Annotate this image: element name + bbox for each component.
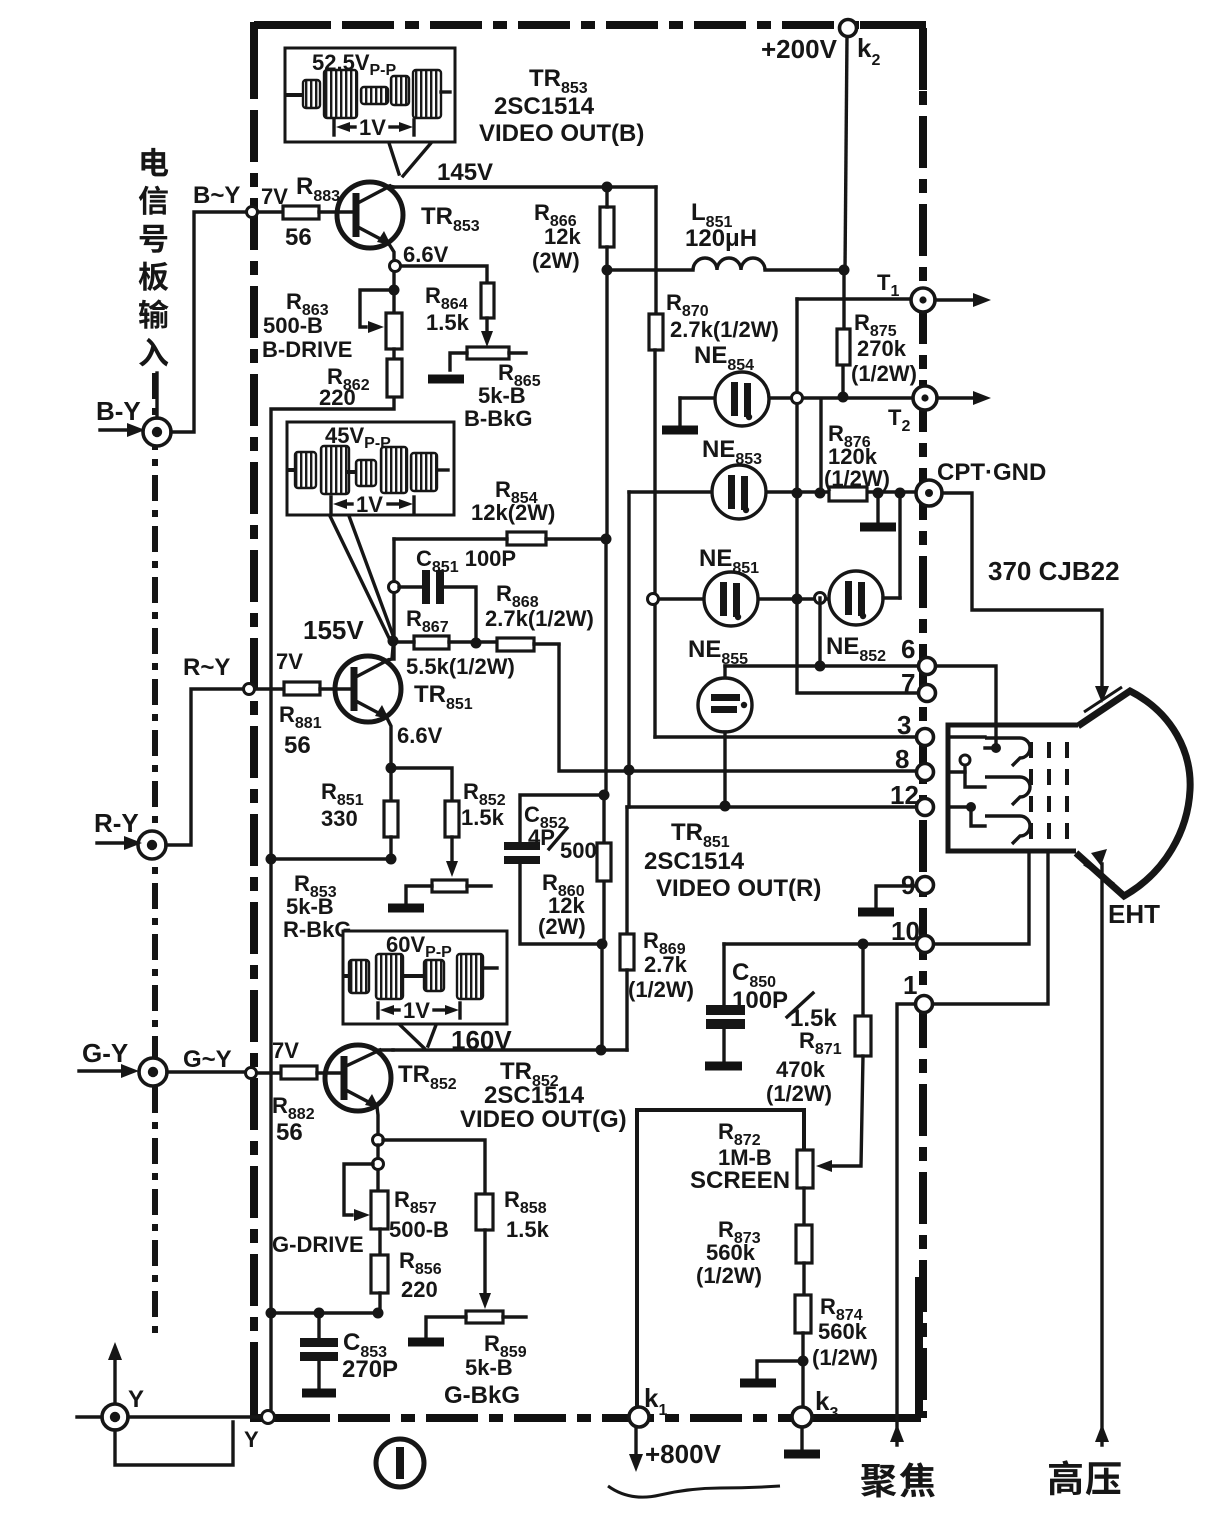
border left dash-dot [250,22,258,1418]
svg-text:500-B: 500-B [263,313,323,338]
svg-text:330: 330 [321,806,358,831]
wire k2 down rail [845,36,847,270]
ground pin 9 [858,886,916,912]
wire node to R883 [258,210,283,213]
node R856 bottom [373,1308,384,1319]
potentiometer R859 5k-B G-BKG [426,1311,527,1409]
node C851 left open [389,582,400,593]
arrow Y input [108,1342,122,1403]
wire G-Y to border node [167,1070,245,1073]
node k1 [629,1383,667,1427]
svg-text:(1/2W): (1/2W) [851,361,917,386]
node NE855 bottom on pin12 row [720,801,731,812]
svg-text:5k-B: 5k-B [478,383,526,408]
pin 9 [901,870,934,900]
resistor R874 [795,1294,878,1370]
svg-text:500: 500 [560,838,597,863]
svg-text:(1/2W): (1/2W) [766,1081,832,1106]
wire pin8 row from R868 [559,645,914,771]
wire R857 to R856 [378,1229,381,1255]
wire pin7 vertical line x=797 [797,299,917,693]
svg-text:2.7k(1/2W): 2.7k(1/2W) [485,606,594,631]
svg-text:56: 56 [284,732,311,759]
wire R870 down to pin3 row [653,350,656,737]
svg-text:1.5k: 1.5k [506,1217,550,1242]
border right dash-dot [919,28,927,1418]
node CPT GND [916,459,1046,506]
svg-text:220: 220 [401,1277,438,1302]
resistor R883 [283,173,340,251]
svg-text:(1/2W): (1/2W) [812,1345,878,1370]
node 155V collector [388,636,399,647]
rail B+ x=606 [602,270,607,1050]
node R~Y on border [244,684,255,695]
svg-text:2SC1514: 2SC1514 [644,848,745,875]
resistor R858 [476,1187,550,1242]
wire R868 to pin8 drop [534,642,559,645]
capacitor C852 [504,790,610,945]
wire pin6 row [725,664,917,667]
neon NE855 [688,636,752,807]
wire R872 to R873 [802,1188,805,1225]
node NE852 riser x900 [895,488,906,499]
resistor R867 [406,606,515,679]
svg-text:VIDEO OUT(G): VIDEO OUT(G) [460,1106,627,1133]
resistor R873 [696,1217,812,1288]
svg-text:100P: 100P [732,987,788,1014]
wire T1 row [797,297,915,300]
wire pin3 row [655,735,914,738]
CRT socket box [948,725,1078,851]
svg-text:1: 1 [903,970,917,1000]
wire R874 to k3 [801,1333,804,1410]
resistor R868 [485,581,594,651]
svg-text:12k(2W): 12k(2W) [471,500,555,525]
svg-text:155V: 155V [303,615,364,645]
Chinese vertical label 电信号板输入 [139,148,169,367]
svg-text:(2W): (2W) [532,248,580,273]
wire R852 to wiper R853 [446,837,458,877]
wire R867 row [394,640,497,643]
svg-text:10: 10 [891,916,920,946]
resistor R871 [766,944,871,1106]
node B-drive tap [389,285,400,296]
svg-text:7V: 7V [276,649,303,674]
label TR852 2SC1514 VIDEO OUT(G) [460,1058,627,1133]
node NE852 left x820 [815,593,826,604]
node R874 ground tap [798,1356,809,1367]
screen divider box [637,1110,804,1410]
input bus dash-dot vertical [152,373,158,1335]
border bottom dash-dot [250,1414,921,1422]
ground k3 [784,1427,820,1454]
pin 1 [903,970,933,1013]
node R866 top [602,182,613,193]
wire R-Y to border node [166,689,243,845]
svg-text:5k-B: 5k-B [286,894,334,919]
svg-text:R~Y: R~Y [183,654,230,681]
wire pin1 to socket [932,851,1048,1004]
resistor R851 [321,779,398,837]
capacitor C851 [399,546,516,637]
wire 145V collector row [394,185,656,188]
wire emitter to R851 [389,768,392,801]
svg-text:8: 8 [895,744,909,774]
svg-text:Y: Y [244,1427,259,1452]
wire emitter down [376,1145,379,1191]
callout lines box2 to TR851 collector [330,516,394,640]
wire R883 to TR853 base [319,210,356,213]
svg-text:G-DRIVE: G-DRIVE [272,1232,364,1257]
pin 3 [897,710,934,746]
svg-text:6.6V: 6.6V [397,723,443,748]
node x820 on pin6 row [815,661,826,672]
label TR851 2SC1514 VIDEO OUT(R) [644,819,821,902]
transistor TR851 [335,647,401,768]
resistor R881 [279,682,322,759]
node ground tap R876 [873,488,884,499]
wire R869 to 160V row [625,970,628,1050]
potentiometer R872 1M-B SCREEN [690,1119,813,1194]
svg-text:7: 7 [901,668,915,698]
node R867-R868 junction [471,638,482,649]
svg-text:560k: 560k [818,1319,868,1344]
wire NE852 right to riser [883,596,900,599]
wire TR851 collector drop [392,539,395,659]
svg-text:56: 56 [285,224,312,251]
wire R866 leads [605,187,608,270]
svg-text:7V: 7V [272,1038,299,1063]
label TR853 2SC1514 VIDEO OUT(B) [479,65,644,147]
svg-text:B~Y: B~Y [193,182,240,209]
wire NE853 left drop x=629 [627,492,630,807]
resistor R864 [425,283,494,335]
CRT funnel [1076,687,1190,896]
svg-text:VIDEO OUT(B): VIDEO OUT(B) [479,120,644,147]
wire R863 to R862 [392,349,395,359]
svg-text:5k-B: 5k-B [465,1355,513,1380]
svg-text:1.5k: 1.5k [426,310,470,335]
svg-text:CPT·GND: CPT·GND [937,459,1046,486]
svg-text:B-BkG: B-BkG [464,406,532,431]
resistor R876 [824,421,890,501]
svg-text:2.7k: 2.7k [644,952,688,977]
node Y input terminal [102,1404,128,1430]
border solid corner segments [254,22,926,1418]
waveform box 45Vp-p [287,422,454,517]
inductor L851 [607,199,844,270]
svg-text:12: 12 [890,780,919,810]
capacitor C850 [705,944,837,1066]
svg-text:(1/2W): (1/2W) [628,977,694,1002]
capacitor C853 [300,1313,398,1393]
arrow T2 output [937,391,991,405]
wire R851 bottom row [271,837,391,859]
node L851 left junction [602,265,613,276]
node R851 bottom [386,854,397,865]
svg-text:(2W): (2W) [538,914,586,939]
svg-text:(1/2W): (1/2W) [824,466,890,491]
resistor R852 [445,779,506,837]
resistor R869 [620,928,694,1002]
svg-text:6: 6 [901,634,915,664]
node R854 right on rail [601,534,612,545]
border top dash-dot [254,21,926,29]
ground R876 [860,493,896,527]
wire node to R882 [257,1071,281,1074]
svg-text:Y: Y [128,1386,144,1413]
pin 6 [901,634,936,675]
node G~Y on border [246,1068,257,1079]
wire R882 to TR852 base [317,1071,344,1074]
node TR851 emitter [386,763,397,774]
wiper loop R863 [360,290,390,333]
node x271 C853 row [266,1308,277,1319]
svg-text:+800V: +800V [645,1439,722,1469]
node Y on border [262,1411,275,1424]
ground R874 tap [740,1361,803,1383]
svg-text:(1/2W): (1/2W) [696,1263,762,1288]
node R875 bottom on T2 row [838,392,849,403]
wire R881 to TR851 base [320,687,354,690]
wire R858 to wiper R859 [479,1230,491,1309]
ground R859 [408,1338,444,1347]
node k2 [840,20,857,37]
resistor R866 [532,200,614,273]
resistor R862 [319,359,402,410]
svg-text:220: 220 [319,385,356,410]
wire emitter node right to R864 [401,266,487,283]
wire R870 drop from 145V row [654,187,657,314]
svg-text:G~Y: G~Y [183,1046,232,1073]
neon NE853 [702,436,766,519]
node R871 top [858,939,869,950]
svg-text:G-BkG: G-BkG [444,1382,520,1409]
waveform box 60Vp-p [343,931,507,1024]
node k2 rail junction [839,265,850,276]
svg-text:1V: 1V [356,492,383,517]
node G-Y input terminal [139,1058,167,1086]
node R876 left x820 [815,488,826,499]
svg-text:1.5k: 1.5k [461,805,505,830]
svg-text:56: 56 [276,1119,303,1146]
svg-text:370 CJB22: 370 CJB22 [988,556,1120,586]
waveform box 52.5Vp-p [285,48,455,142]
svg-text:+200V: +200V [761,34,838,64]
svg-text:3: 3 [897,710,911,740]
pin 12 [890,780,934,816]
svg-text:SCREEN: SCREEN [690,1167,790,1194]
transistor TR852 [325,1045,393,1134]
node R-Y input terminal [138,831,166,859]
wire focus line [890,1004,916,1445]
node rail on 160V row [596,1045,607,1056]
svg-text:VIDEO OUT(R): VIDEO OUT(R) [656,875,821,902]
resistor R854 [471,477,555,545]
resistor R860 [538,843,611,939]
wire Y loop below [115,1422,233,1465]
wire EHT line [1091,849,1109,1445]
node T1 [877,270,935,312]
svg-text:1V: 1V [359,115,386,140]
resistor R856 [371,1248,442,1302]
svg-text:1V: 1V [403,998,430,1023]
wire emitter row to R858 [383,1140,485,1194]
node G-drive tap open [373,1159,384,1170]
svg-text:2.7k(1/2W): 2.7k(1/2W) [670,317,779,342]
transistor TR853 [337,182,403,261]
wire T2 row [680,396,917,399]
label 聚焦 [861,1462,935,1497]
wire node to R881 [255,687,284,690]
svg-text:560k: 560k [706,1240,756,1265]
svg-text:B-DRIVE: B-DRIVE [262,337,352,362]
wire R875 vertical [843,270,844,394]
node NE853 right x797 [792,488,803,499]
pin 8 [895,744,934,781]
wire R854 row [394,537,607,540]
svg-text:270P: 270P [342,1356,398,1383]
node k3 [792,1386,838,1427]
ground R865 [428,375,464,384]
wire NE852 riser [898,493,901,598]
node B~Y on border [247,207,258,218]
pin 10 [891,916,934,953]
ground NE854 left [662,398,698,430]
svg-text:EHT: EHT [1108,899,1160,929]
label 高压 [1049,1460,1121,1495]
svg-text:G-Y: G-Y [82,1038,128,1068]
gun electrode hooks [985,738,1030,844]
svg-text:270k: 270k [857,336,907,361]
arrow B-Y input [100,423,145,437]
wire pin10 to socket [934,851,1029,944]
arrow T1 output [935,293,991,307]
wire NE853 row [629,490,917,493]
resistor R875 [837,310,917,386]
svg-text:R-BkG: R-BkG [283,917,351,942]
svg-text:2SC1514: 2SC1514 [484,1082,585,1109]
potentiometer R853 5k-B R-BKG [283,871,491,942]
neon NE851 [699,545,759,626]
svg-text:B-Y: B-Y [96,396,141,426]
wire R856 bottom row [271,1293,380,1313]
wire emitter row to R852 [391,768,452,801]
svg-text:500-B: 500-B [389,1217,449,1242]
callout lines box1 to TR853 [389,143,431,176]
svg-text:5.5k(1/2W): 5.5k(1/2W) [406,654,515,679]
wire T2 corner to R876 [819,399,822,487]
node C853 top [314,1308,325,1319]
wire CPT GND to funnel [942,493,1109,703]
potentiometer R865 5k-B B-BKG [450,347,541,431]
wire B-Y to border node [171,212,246,432]
svg-text:120μH: 120μH [685,225,757,252]
wire R864 to wiper arrow R865 [481,318,493,347]
node NE851 right x797 [792,594,803,605]
wire NE851 row [652,597,829,600]
arrow G-Y input [79,1064,139,1078]
wire R862 down-bus x=271 [271,397,394,1417]
ground R853 [388,904,424,913]
arrow R-Y input [97,836,142,850]
svg-text:6.6V: 6.6V [403,242,449,267]
wire emitter node down [392,272,395,313]
wire R871 to R872 wiper [816,1056,863,1172]
page marker circled 1 [376,1439,424,1487]
wire pin12 row [627,805,914,808]
node C852 bottom [597,939,608,950]
node B-Y input terminal [143,373,171,446]
callout lines box3 to 160V row [400,1025,436,1048]
resistor R882 [272,1066,317,1146]
wire R873 to R874 [802,1263,805,1295]
pin 7 [901,668,936,702]
wire pin10 row [724,942,915,945]
resistor R870 [649,290,779,350]
potentiometer R857 500-B [272,1187,449,1257]
svg-text:12k: 12k [544,224,581,249]
neon NE854 [694,342,769,426]
node on x271 bus [266,854,277,865]
wire x820 segment NE852 to pin6 row [818,598,821,667]
svg-text:470k: 470k [776,1057,826,1082]
squiggle bottom left [608,1486,780,1497]
svg-text:R-Y: R-Y [94,808,139,838]
node 6.6V TR853 emitter [390,261,401,272]
wiper loop R857 [344,1164,373,1221]
wire R869 riser [625,807,628,934]
socket internal wires [934,666,1001,826]
node junction x797 T2 row [792,393,803,404]
svg-text:145V: 145V [437,159,493,186]
arrow +800V [629,1427,722,1472]
node TR852 emitter open [373,1135,384,1146]
node T2 [888,386,937,435]
neon NE852 [826,571,886,665]
wire 160V collector row [393,1048,627,1051]
socket glass dashed lines [1031,742,1067,848]
potentiometer R863 500-B [262,289,402,362]
wire Y to border [77,1415,262,1418]
node NE851 left open [648,594,659,605]
svg-text:2SC1514: 2SC1514 [494,93,595,120]
node x629 on pin8 row [624,765,635,776]
